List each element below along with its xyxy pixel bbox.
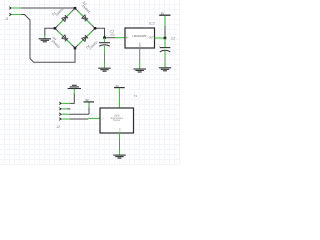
sensor top rail gray bbox=[118, 94, 120, 98]
label D2 1N4001 bbox=[80, 0, 94, 14]
capacitor C1 top plate bbox=[99, 42, 110, 44]
svg-text:3V: 3V bbox=[115, 84, 119, 88]
ground (C1) bbox=[98, 68, 110, 71]
3V rail (left, green) bbox=[88, 102, 90, 107]
3V rail wire (green upper) bbox=[164, 16, 166, 26]
capacitor C1 wire (green) bbox=[104, 38, 106, 42]
3V rail (left, gray) bbox=[88, 107, 90, 114]
J2 pin1 riser (gray) bbox=[70, 94, 74, 104]
supply bars above J2 pin1 bbox=[68, 85, 81, 88]
svg-text:IC2: IC2 bbox=[149, 22, 154, 26]
J1 pin1 lead (green) bbox=[12, 7, 21, 9]
wire J2.3 to 3V rail bbox=[69, 113, 89, 115]
label D4 1N4001 bbox=[85, 38, 99, 52]
diode D1 bbox=[62, 15, 68, 21]
svg-text:C2: C2 bbox=[171, 37, 175, 41]
svg-text:GND: GND bbox=[140, 42, 142, 47]
C1 ground wire (green) bbox=[104, 62, 106, 68]
node: bridge right bbox=[94, 27, 97, 30]
wire J2.4 to sensor (gray) bbox=[69, 118, 88, 120]
bridge edge D3 (leads gray) bbox=[55, 28, 75, 48]
wire J1.1 to bridge top node bbox=[21, 7, 75, 9]
sensor top rail green upper bbox=[118, 88, 120, 94]
svg-text:3V: 3V bbox=[85, 98, 89, 102]
node: bridge bottom bbox=[74, 47, 77, 50]
svg-text:OUT: OUT bbox=[149, 37, 154, 39]
J2 pin4 lead (green) bbox=[62, 118, 69, 120]
bridge edge D1 (leads gray) bbox=[55, 8, 75, 28]
svg-text:IN: IN bbox=[126, 37, 129, 39]
ground (bridge left) bbox=[39, 39, 51, 42]
label D3 1N4001 bbox=[49, 36, 63, 50]
3V supply bar (left) bbox=[84, 101, 95, 103]
bridge edge D1 wires (green) bbox=[58, 11, 72, 25]
wire right node to C1 corner bbox=[95, 28, 105, 37]
svg-text:GND: GND bbox=[119, 127, 121, 132]
svg-text:3V: 3V bbox=[161, 12, 165, 16]
svg-text:J1: J1 bbox=[5, 17, 9, 21]
3V rail wire (gray) bbox=[164, 26, 166, 37]
bridge edge D2 (leads gray) bbox=[75, 8, 95, 28]
diode D3 bbox=[62, 35, 68, 41]
wire IC OUT (green) bbox=[155, 37, 166, 39]
node: bridge left bbox=[54, 27, 57, 30]
3V supply bar (top right) bbox=[159, 14, 170, 16]
IC GND lead (gray) bbox=[139, 48, 141, 62]
ground (C2) bbox=[159, 68, 171, 71]
node: C1 junction bbox=[103, 36, 106, 39]
diode D4 bbox=[82, 35, 88, 41]
svg-text:T1: T1 bbox=[134, 94, 138, 98]
3V supply bar (sensor top) bbox=[114, 87, 125, 89]
regulator IC2 box bbox=[125, 28, 155, 48]
svg-text:10µ: 10µ bbox=[110, 32, 115, 36]
label D1 1N4001 bbox=[51, 5, 65, 19]
svg-text:Sensor: Sensor bbox=[113, 119, 121, 122]
C1 lower lead (green part) bbox=[104, 46, 106, 54]
IC ground wire (green) bbox=[139, 62, 141, 68]
connector J1 pin 1 bbox=[9, 6, 13, 10]
sensor T1 box bbox=[100, 108, 134, 133]
ground (sensor) bbox=[113, 155, 125, 158]
bridge edge D4 (leads gray) bbox=[75, 28, 95, 48]
bridge edge D3 wires (green) bbox=[58, 32, 72, 45]
J2 pin1 lead (green) bbox=[62, 102, 70, 104]
diode D2 bbox=[82, 15, 88, 21]
C2 wire (green) bbox=[164, 39, 166, 48]
wire left node to ground bbox=[45, 28, 55, 36]
connector J1 pin 2 bbox=[9, 13, 13, 17]
sensor bottom wire green lower bbox=[119, 150, 121, 155]
node: OUT junction bbox=[164, 37, 167, 40]
J1 pin2 lead (green) bbox=[12, 14, 21, 16]
connector J2 pin 3 bbox=[59, 112, 63, 116]
connector J2 pin 1 bbox=[59, 102, 63, 106]
J2 pin2 lead (green) bbox=[62, 108, 67, 110]
wire to IC IN (gray part) bbox=[105, 37, 116, 39]
C2 ground wire (green) bbox=[164, 62, 166, 67]
connector J2 pin 4 bbox=[59, 117, 63, 121]
ground (IC) bbox=[134, 69, 146, 72]
svg-text:LM2940IMP: LM2940IMP bbox=[133, 34, 147, 38]
bridge edge D4 wires (green) bbox=[78, 32, 92, 45]
C2 lower lead (gray) bbox=[164, 59, 166, 63]
J2 pin1 riser (green near bar) bbox=[73, 89, 75, 94]
capacitor C2 top plate bbox=[160, 47, 171, 49]
sensor top rail green lower bbox=[118, 98, 120, 109]
background grid bbox=[0, 0, 180, 165]
capacitor C1 bottom plate (curved) bbox=[99, 45, 110, 46]
sensor bottom wire green upper bbox=[119, 133, 121, 139]
J2 pin3 lead (green) bbox=[62, 113, 69, 115]
wire J2.4 to sensor (green) bbox=[88, 117, 100, 119]
capacitor C2 bottom plate (curved) bbox=[160, 50, 171, 52]
bridge edge D2 wires (green) bbox=[78, 11, 92, 25]
node: bridge top bbox=[74, 7, 77, 10]
C2 lower lead (green part) bbox=[164, 51, 166, 59]
C1 lower lead (gray) bbox=[104, 54, 106, 63]
wire J1.2 to bridge bottom node bbox=[21, 15, 75, 63]
wire to IC IN (green part) bbox=[115, 37, 125, 39]
sensor bottom wire gray bbox=[119, 139, 121, 150]
svg-text:J2: J2 bbox=[57, 125, 61, 129]
connector J2 pin 2 bbox=[59, 107, 63, 111]
J2 pin2 stub (gray) bbox=[67, 108, 70, 110]
wire (green) into ground bbox=[44, 36, 46, 39]
